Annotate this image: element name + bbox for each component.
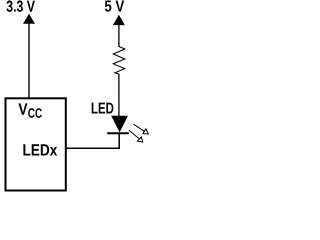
power arrow 3.3V <box>23 14 35 24</box>
resistor R1 <box>113 47 125 75</box>
node 5V label <box>105 1 124 12</box>
LED light arrow lower <box>129 130 143 142</box>
LED D1 anode triangle <box>111 116 128 133</box>
node 3.3V label <box>7 0 35 11</box>
wire resistor to LED anode <box>118 74 120 117</box>
LED D1 cathode bar <box>107 132 129 134</box>
LED light arrow upper <box>133 124 148 134</box>
pin label VCC <box>18 103 42 117</box>
pin label LEDx <box>23 144 57 155</box>
IC box U1 <box>6 98 66 190</box>
LED label <box>92 103 114 114</box>
wire 3.3V to box <box>28 23 30 98</box>
wire LEDx pin to LED cathode <box>66 133 119 148</box>
wire 5V to resistor <box>118 25 120 48</box>
power arrow 5V <box>113 15 125 25</box>
